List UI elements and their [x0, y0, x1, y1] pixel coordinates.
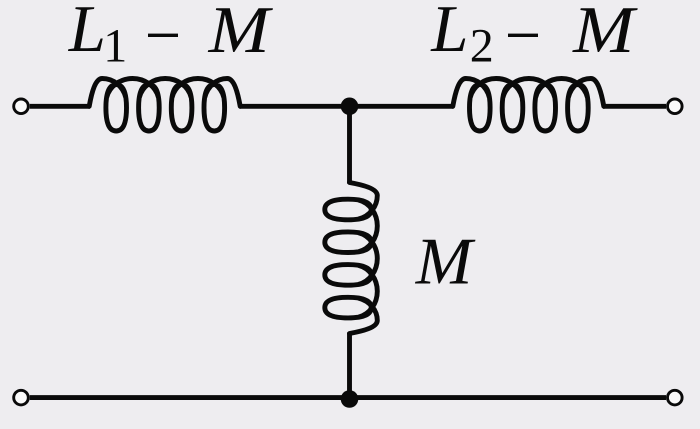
wire: top rail middle segment	[240, 104, 454, 109]
label L1 - M	[68, 0, 274, 73]
wire: bottom rail	[30, 395, 666, 400]
terminal top-left	[14, 99, 29, 114]
label L2 - M	[430, 0, 638, 73]
svg-text:2: 2	[470, 20, 494, 73]
terminal bottom-left	[14, 390, 29, 405]
wire: vertical branch lower stub	[347, 333, 352, 398]
node junction dot bottom	[341, 390, 359, 408]
inductor L1-M	[89, 79, 240, 132]
inductor L2-M	[453, 79, 604, 132]
svg-text:L: L	[430, 0, 468, 66]
terminal top-right	[668, 99, 683, 114]
svg-text:M: M	[572, 0, 638, 67]
wire: top rail right segment	[603, 104, 666, 109]
terminal bottom-right	[668, 390, 683, 405]
node junction dot top	[341, 98, 359, 116]
svg-text:L: L	[68, 0, 106, 66]
svg-text:1: 1	[103, 20, 127, 73]
wire: top rail left segment	[30, 104, 90, 109]
svg-text:M: M	[208, 0, 274, 67]
label minus sign 2	[508, 34, 538, 37]
label minus sign 1	[148, 34, 178, 37]
svg-text:M: M	[415, 224, 477, 298]
wire: vertical branch upper stub	[347, 106, 352, 183]
inductor M	[325, 183, 378, 334]
